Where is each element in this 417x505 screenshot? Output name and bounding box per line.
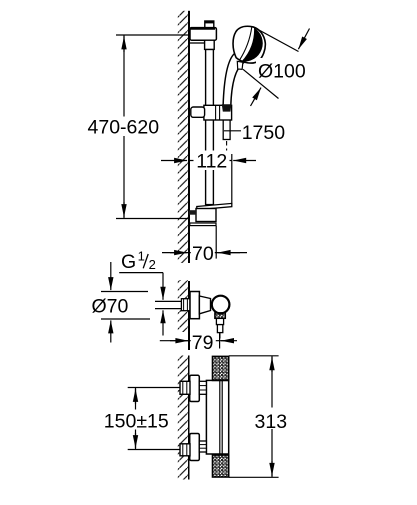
svg-text:Ø100: Ø100 <box>258 61 306 83</box>
svg-text:470-620: 470-620 <box>88 117 160 139</box>
label G 1/2 up arrow <box>162 310 164 335</box>
svg-text:150±15: 150±15 <box>104 411 169 433</box>
top bracket lower lip <box>190 42 206 44</box>
shower head face edge line <box>239 27 252 61</box>
valve knob (side) <box>212 296 230 314</box>
dim 79 right arrow <box>221 340 233 342</box>
dim 313 bottom arrow <box>271 461 273 476</box>
shower head outline <box>233 26 265 63</box>
bottom S-union <box>190 434 200 461</box>
valve outlet axis line <box>219 333 221 339</box>
dim Ø70 bottom arrow <box>110 320 112 342</box>
valve escutcheon (side) <box>190 292 199 319</box>
dim 313 label <box>252 408 290 430</box>
hose <box>223 112 230 140</box>
slider knob <box>191 107 205 117</box>
dim 150 top extension line <box>128 387 182 389</box>
svg-text:G: G <box>121 251 136 273</box>
svg-text:1: 1 <box>138 248 145 263</box>
dim 79 left arrow <box>170 340 188 342</box>
thermostat body (front) <box>206 380 228 454</box>
top bracket knob <box>205 21 214 28</box>
dim 79 label <box>191 335 216 352</box>
dim Ø100 lower arrow <box>251 88 262 106</box>
wall (top section) face line <box>188 11 190 263</box>
dim 470-620 bottom extension line <box>116 218 189 220</box>
top S-union <box>190 375 200 401</box>
bottom hex nut <box>180 444 190 456</box>
dim 79 right extension line <box>219 333 221 349</box>
bottom bracket base flange <box>190 223 216 226</box>
dim 470-620 bottom arrow <box>123 202 125 217</box>
svg-text:79: 79 <box>192 332 214 354</box>
dim 150 dimension line <box>135 388 137 450</box>
shower head handle <box>223 54 243 106</box>
top bracket collar <box>205 40 215 49</box>
svg-text:Ø70: Ø70 <box>92 295 129 317</box>
svg-text:112: 112 <box>196 151 227 173</box>
top hex nut <box>180 381 190 394</box>
dim 313 top arrow <box>271 357 273 372</box>
bottom bracket body <box>196 209 216 222</box>
dim 70 left arrow <box>170 252 187 254</box>
rail <box>206 49 214 204</box>
dim 112 label <box>194 151 230 171</box>
label 1750 leader <box>224 130 241 132</box>
dim 313 bottom extension line <box>229 476 279 478</box>
dim Ø100 extension line upper <box>254 27 299 52</box>
dim 470-620 dimension line <box>123 35 125 219</box>
dim 470-620 top extension line <box>116 34 189 36</box>
thermostat top grip (knurled) <box>213 356 229 380</box>
dim 150 top arrow <box>135 389 137 404</box>
dim 112 dimension line <box>189 160 233 162</box>
dim 150 bottom extension line <box>128 449 182 451</box>
slider holder body <box>204 105 232 120</box>
svg-text:1750: 1750 <box>242 122 286 144</box>
valve outlet upper <box>216 318 223 324</box>
dim 313 dimension line <box>271 356 273 478</box>
dim 150 label <box>101 410 169 430</box>
dim 70 dimension line <box>162 252 247 254</box>
wall (bottom section) face line <box>188 356 190 480</box>
svg-text:313: 313 <box>255 411 288 433</box>
top small hex <box>199 381 206 394</box>
dim 470-620 top arrow <box>123 36 125 52</box>
valve body cone <box>199 296 210 314</box>
bottom bracket shelf <box>197 203 232 209</box>
bottom small hex <box>199 441 206 452</box>
dim 70 label <box>191 244 215 263</box>
dim 112 extension line <box>231 154 233 204</box>
dim Ø100 upper arrow <box>298 29 309 50</box>
dim 112 right arrow <box>233 160 256 162</box>
bottom bracket wall lug <box>189 210 196 215</box>
dim 150 bottom arrow <box>135 433 137 448</box>
shower head dark crescent <box>242 28 263 62</box>
dim 70 extension line <box>215 226 217 259</box>
dim Ø70 bottom extension line <box>101 318 150 320</box>
dim 470-620 label <box>85 117 166 137</box>
wall (middle section) hatch <box>178 280 188 332</box>
dim 70 right arrow <box>218 252 240 254</box>
valve knurled nut <box>215 313 226 319</box>
wall (top section) hatch <box>178 11 188 263</box>
dim 112 left arrow <box>161 160 187 162</box>
wall (bottom section) hatch <box>178 356 188 480</box>
valve supply pipe <box>155 301 182 309</box>
dim Ø100 label <box>256 58 304 79</box>
thermostat bottom grip (knurled) <box>213 455 229 477</box>
dim Ø100 extension line lower <box>243 69 279 98</box>
label G 1/2 down arrow <box>162 273 164 300</box>
svg-text:70: 70 <box>192 243 214 265</box>
top bracket arm <box>190 28 216 41</box>
dim Ø70 top extension line <box>101 291 148 293</box>
hose nut (dark) <box>222 104 232 111</box>
dim 313 top extension line <box>229 355 279 357</box>
svg-text:2: 2 <box>149 257 156 272</box>
hose dashed continuation <box>226 141 228 157</box>
wall (middle section) face line <box>188 281 190 350</box>
valve outlet lower <box>217 325 222 333</box>
valve wall nut <box>181 299 190 311</box>
shower head handle tab <box>237 61 243 69</box>
dim Ø70 top arrow <box>110 262 112 290</box>
dim 79 dimension line <box>160 340 237 342</box>
label G 1/2 leader underline <box>119 272 163 274</box>
